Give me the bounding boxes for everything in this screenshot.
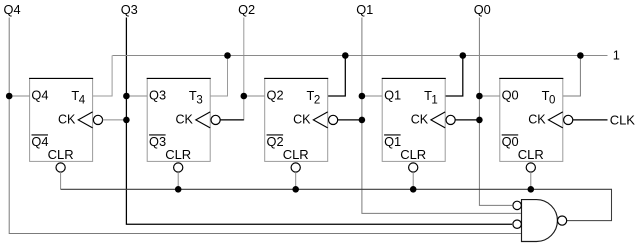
flip-flop T1 body <box>382 78 445 161</box>
wire T2 tap from 1-line <box>328 56 346 97</box>
svg-text:Q3: Q3 <box>149 134 166 149</box>
svg-text:Q4: Q4 <box>31 88 48 103</box>
CLR inversion bubble of T1 <box>409 163 418 172</box>
junction Q4 output on rail <box>6 93 13 100</box>
junction clock tap on Q0 rail <box>476 117 483 124</box>
nand U1 input bubble from Q3 <box>513 220 521 228</box>
junction T3 tap on 1-line <box>224 52 231 59</box>
CLR inversion bubble of T3 <box>174 163 183 172</box>
flip-flop T3 body <box>147 78 210 161</box>
wire Q2 output to rail <box>244 95 265 97</box>
nand U1 input bubble from Q0 <box>513 201 521 209</box>
CLR inversion bubble of T4 <box>56 163 65 172</box>
svg-text:Q1: Q1 <box>384 88 401 103</box>
wire clock of T1 from Q0 rail <box>455 119 479 121</box>
flip-flop T2 body <box>265 78 328 161</box>
wire Q3 output to rail <box>126 95 147 97</box>
svg-text:CLR: CLR <box>283 147 309 162</box>
svg-text:Q0: Q0 <box>502 134 519 149</box>
svg-text:Q0: Q0 <box>502 88 519 103</box>
nand gate U1 body <box>522 200 558 242</box>
wire CLR stub of T0 <box>530 172 532 189</box>
junction T2 tap on 1-line <box>342 52 349 59</box>
svg-text:1: 1 <box>613 47 620 62</box>
wire Q1 vertical rail <box>362 18 522 214</box>
wire Q4 output to rail <box>9 95 29 97</box>
CLR inversion bubble of T2 <box>291 163 300 172</box>
clock inversion bubble of T4 <box>93 115 102 124</box>
wire CLR stub of T2 <box>295 172 297 189</box>
wire T3 tap from 1-line <box>210 56 227 97</box>
svg-text:Q0: Q0 <box>474 2 491 17</box>
svg-text:CLR: CLR <box>518 147 544 162</box>
junction CLR stub of T3 on feedback line <box>175 186 182 193</box>
wire clock of T3 from Q2 rail <box>220 119 244 121</box>
clock inversion bubble of T0 <box>564 115 573 124</box>
junction Q2 output on rail <box>241 93 248 100</box>
junction Q1 output on rail <box>359 93 366 100</box>
svg-text:Q4: Q4 <box>31 134 48 149</box>
net 1 (logic high) distribution line <box>113 55 608 57</box>
svg-text:CLR: CLR <box>48 147 74 162</box>
svg-text:Q3: Q3 <box>149 88 166 103</box>
svg-text:1: 1 <box>431 95 437 107</box>
wire Q3 vertical rail <box>126 18 512 225</box>
junction T1 tap on 1-line <box>460 52 467 59</box>
clock inversion bubble of T1 <box>446 115 455 124</box>
svg-text:Q2: Q2 <box>267 134 284 149</box>
svg-text:CLK: CLK <box>610 112 636 127</box>
svg-text:4: 4 <box>79 95 86 107</box>
wire CLR stub of T1 <box>412 172 414 189</box>
junction CLR stub of T2 on feedback line <box>292 186 299 193</box>
wire clock of T4 from Q3 rail <box>103 119 127 121</box>
wire CLR stub of T4 <box>60 172 62 189</box>
clock edge triangle of T2 <box>313 112 327 128</box>
wire T4 tap from 1-line <box>93 56 113 97</box>
svg-text:Q1: Q1 <box>356 2 373 17</box>
junction CLR stub of T0 on feedback line <box>528 186 535 193</box>
svg-text:CK: CK <box>176 113 194 127</box>
CLR inversion bubble of T0 <box>526 163 535 172</box>
junction clock tap on Q1 rail <box>359 117 366 124</box>
wire T0 tap from 1-line <box>563 56 581 97</box>
svg-text:3: 3 <box>196 95 202 107</box>
wire clock of T2 from Q1 rail <box>338 119 362 121</box>
wire T1 tap from 1-line <box>445 56 463 97</box>
svg-text:CK: CK <box>293 113 311 127</box>
clock edge triangle of T4 <box>78 112 92 128</box>
svg-text:CK: CK <box>528 113 546 127</box>
svg-text:CLR: CLR <box>400 147 426 162</box>
wire CLR feedback net <box>61 189 612 220</box>
clock edge triangle of T3 <box>196 112 210 128</box>
svg-text:Q1: Q1 <box>384 134 401 149</box>
junction Q3 output on rail <box>123 93 130 100</box>
wire Q0 vertical rail <box>479 18 512 206</box>
svg-text:CLR: CLR <box>165 147 191 162</box>
wire Q2 vertical rail <box>220 18 244 120</box>
wire Q1 output to rail <box>362 95 382 97</box>
junction Q0 output on rail <box>476 93 483 100</box>
svg-text:Q2: Q2 <box>267 88 284 103</box>
clock inversion bubble of T3 <box>211 115 220 124</box>
svg-text:CK: CK <box>58 113 76 127</box>
flip-flop T4 body <box>30 78 93 161</box>
svg-text:Q2: Q2 <box>238 2 255 17</box>
wire Q0 output to rail <box>479 95 499 97</box>
svg-text:2: 2 <box>314 95 320 107</box>
wire Q4 vertical rail <box>9 18 521 234</box>
wire CLR stub of T3 <box>177 172 179 189</box>
junction clock tap on Q3 rail <box>123 117 130 124</box>
junction T0 tap on 1-line <box>577 52 584 59</box>
clock edge triangle of T1 <box>431 112 445 128</box>
svg-text:Q3: Q3 <box>121 2 138 17</box>
svg-text:CK: CK <box>411 113 429 127</box>
clock inversion bubble of T2 <box>329 115 338 124</box>
svg-text:Q4: Q4 <box>4 2 21 17</box>
svg-text:0: 0 <box>549 95 555 107</box>
flip-flop T0 body <box>500 78 563 161</box>
nand U1 output bubble <box>558 216 567 225</box>
clock edge triangle of T0 <box>548 112 562 128</box>
wire CLK input to T0 clock <box>573 119 608 121</box>
junction CLR stub of T1 on feedback line <box>410 186 417 193</box>
